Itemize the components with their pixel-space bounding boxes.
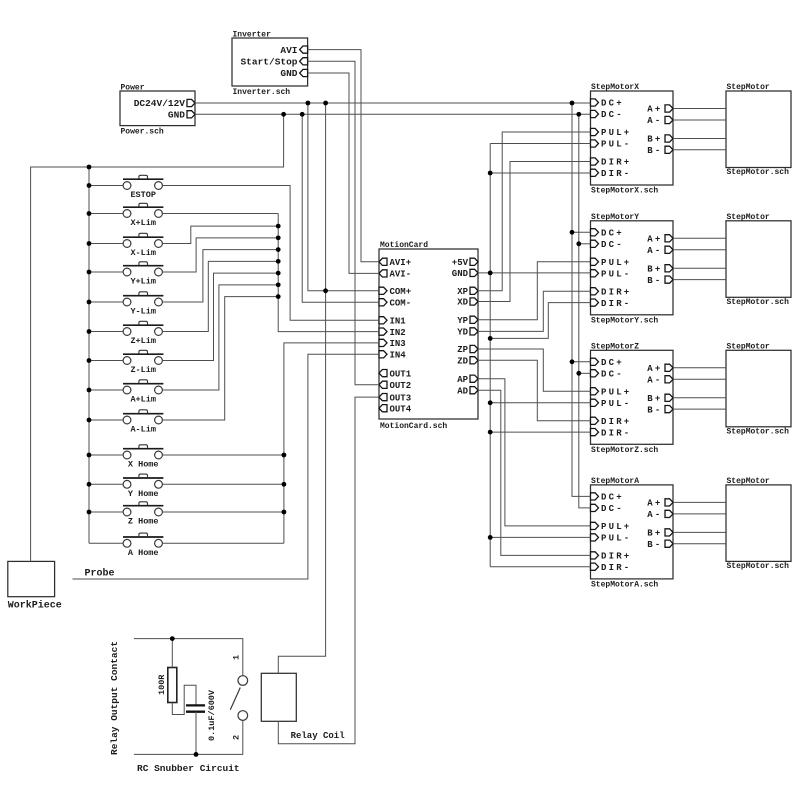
svg-text:IN2: IN2 (390, 328, 406, 338)
svg-text:YD: YD (457, 328, 468, 338)
svg-text:PUL-: PUL- (601, 534, 631, 544)
wire sig-gnd to StepMotorZ DIR- (490, 431, 590, 433)
pin AD of MotionCard (457, 386, 478, 396)
svg-text:YP: YP (457, 316, 468, 326)
svg-text:Inverter.sch: Inverter.sch (233, 88, 291, 97)
wire StepMotorZ B- to motor (673, 408, 726, 410)
svg-text:XP: XP (457, 287, 468, 297)
pin OUT3 of MotionCard (379, 393, 411, 403)
svg-text:StepMotor.sch: StepMotor.sch (727, 168, 790, 177)
svg-text:B-: B- (647, 405, 662, 415)
svg-text:B+: B+ (647, 529, 662, 539)
wire bus to Z+Lim left contact (89, 331, 123, 333)
wire signal ground bus (489, 144, 491, 567)
svg-text:Inverter: Inverter (233, 31, 272, 40)
svg-text:AD: AD (457, 386, 468, 396)
svg-text:A Home: A Home (128, 548, 159, 558)
pin A+ of StepMotorA (647, 499, 673, 509)
svg-text:IN4: IN4 (390, 351, 407, 361)
pin COM- of MotionCard (379, 299, 411, 309)
svg-text:WorkPiece: WorkPiece (8, 600, 62, 612)
wire Z+Lim to limit bus (162, 261, 278, 331)
wire AP to StepMotorA PUL+ (478, 379, 591, 526)
junction dots on home bus (282, 453, 287, 515)
wire relay contact bottom line (134, 720, 243, 754)
svg-text:MotionCard: MotionCard (380, 241, 428, 250)
pin DIR- of StepMotorZ (591, 428, 632, 438)
svg-text:B+: B+ (647, 394, 662, 404)
pin DIR- of StepMotorX (591, 169, 632, 179)
wire ZP to StepMotorZ PUL+ (478, 349, 591, 391)
pin YD of MotionCard (457, 328, 478, 338)
wire resistor top lead (171, 639, 173, 668)
wire DC- branch StepMotorZ (579, 372, 591, 374)
svg-text:StepMotorX: StepMotorX (591, 83, 639, 92)
svg-text:ZD: ZD (457, 357, 468, 367)
wire StepMotorA B- to motor (673, 543, 726, 545)
wire ESTOP to MotionCard IN1 (162, 186, 379, 321)
pin IN3 of MotionCard (379, 339, 406, 349)
pin OUT4 of MotionCard (379, 404, 412, 414)
svg-text:B-: B- (647, 540, 662, 550)
wire StepMotorZ A+ to motor (673, 367, 726, 369)
svg-text:StepMotor: StepMotor (727, 477, 770, 486)
pin DC24V/12V of Power (134, 98, 195, 109)
svg-text:StepMotor: StepMotor (727, 213, 770, 222)
wire X Home to home bus (162, 454, 284, 456)
svg-text:COM-: COM- (390, 299, 412, 309)
svg-text:Relay Output Contact: Relay Output Contact (109, 641, 120, 755)
wire StepMotorA A- to motor (673, 513, 726, 515)
pin B+ of StepMotorZ (647, 394, 673, 404)
wire bus to A-Lim left contact (89, 419, 123, 421)
pin PUL+ of StepMotorA (591, 522, 632, 532)
wire Y Home to home bus (162, 483, 284, 485)
wire Inverter GND to MotionCard AVI- (308, 73, 379, 273)
pin DIR+ of StepMotorZ (591, 417, 632, 427)
wire StepMotorY A+ to motor (673, 237, 726, 239)
pin DC+ of StepMotorZ (591, 358, 624, 368)
pin PUL+ of StepMotorY (591, 258, 632, 268)
pin A- of StepMotorA (647, 510, 673, 520)
pin DIR- of StepMotorY (591, 299, 632, 309)
svg-text:Y-Lim: Y-Lim (130, 307, 156, 317)
svg-text:RC Snubber Circuit: RC Snubber Circuit (137, 763, 240, 774)
switch A+Lim - push button (123, 380, 163, 394)
wire XP to StepMotorX PUL+ (478, 132, 591, 291)
wire DC24V rail from Power to StepMotorX DC+ (195, 102, 591, 104)
svg-text:PUL-: PUL- (601, 399, 631, 409)
svg-text:PUL+: PUL+ (601, 522, 631, 532)
svg-text:DIR-: DIR- (601, 169, 631, 179)
svg-text:B+: B+ (647, 135, 662, 145)
pin YP of MotionCard (457, 316, 478, 326)
svg-text:DC-: DC- (601, 370, 624, 380)
svg-text:A-: A- (647, 376, 662, 386)
pin DIR- of StepMotorA (591, 563, 632, 573)
wire switch common bus (88, 167, 90, 543)
pin PUL- of StepMotorY (591, 270, 632, 280)
wire GND drop to switch common rail (31, 114, 284, 561)
svg-text:GND: GND (452, 269, 469, 279)
pin A- of StepMotorX (647, 116, 673, 126)
hierarchical sheet StepMotorA (591, 485, 674, 579)
svg-text:DC+: DC+ (601, 99, 624, 109)
switch X-Lim - push button (123, 233, 163, 247)
pin A- of StepMotorY (647, 246, 673, 256)
pin AP of MotionCard (457, 375, 478, 385)
pin PUL- of StepMotorA (591, 534, 632, 544)
svg-text:DIR+: DIR+ (601, 417, 631, 427)
switch Z Home - push button (123, 502, 163, 516)
svg-text:StepMotorA: StepMotorA (591, 477, 639, 486)
junction dots on DC+ bus (570, 230, 575, 364)
switch Z-Lim - push button (123, 350, 163, 364)
wire Relay Coil - to MotionCard OUT3 (278, 397, 379, 744)
svg-text:A+: A+ (647, 105, 662, 115)
switch A-Lim - push button (123, 410, 163, 424)
wire A+Lim to limit bus (162, 285, 278, 390)
wire Z-Lim to limit bus (162, 273, 278, 360)
wire bus to ESTOP left contact (89, 185, 123, 187)
pin A+ of StepMotorY (647, 235, 673, 245)
svg-text:PUL+: PUL+ (601, 258, 631, 268)
wire XD to StepMotorX DIR+ (478, 162, 591, 302)
svg-text:DIR-: DIR- (601, 428, 631, 438)
svg-text:B-: B- (647, 276, 662, 286)
svg-text:Z+Lim: Z+Lim (130, 336, 156, 346)
hierarchical sheet StepMotorX (591, 91, 674, 185)
pin DC+ of StepMotorA (591, 493, 624, 503)
wire capacitor bottom lead (195, 712, 197, 755)
wire sig-gnd jog to StepMotorY DIR- (490, 303, 590, 339)
svg-text:Power.sch: Power.sch (121, 128, 164, 137)
switch Y+Lim - push button (123, 262, 163, 276)
wire home-switch bus to MotionCard IN3 (284, 343, 379, 543)
hierarchical sheet StepMotor (motor Z) (726, 350, 791, 427)
svg-text:StepMotor: StepMotor (727, 342, 770, 351)
pin OUT2 of MotionCard (379, 381, 411, 391)
svg-text:DIR+: DIR+ (601, 288, 631, 298)
svg-text:OUT3: OUT3 (390, 393, 412, 403)
pin PUL- of StepMotorZ (591, 399, 632, 409)
pin XP of MotionCard (457, 287, 478, 297)
wire A Home to home bus (162, 542, 284, 544)
wire X+Lim to limit bus (162, 213, 278, 215)
junction dot COM+ / relay feed (323, 288, 328, 293)
pin B+ of StepMotorX (647, 135, 673, 145)
wire sig-gnd to StepMotorA PUL- (490, 536, 590, 538)
sheet WorkPiece (8, 561, 55, 596)
svg-text:AVI-: AVI- (390, 270, 412, 280)
svg-text:B-: B- (647, 146, 662, 156)
wire MotionCard GND to StepMotorY PUL- (signal ground rail) (478, 272, 591, 274)
svg-text:OUT2: OUT2 (390, 381, 412, 391)
svg-text:StepMotorZ: StepMotorZ (591, 342, 639, 351)
svg-text:MotionCard.sch: MotionCard.sch (380, 422, 447, 431)
pin DC- of StepMotorY (591, 240, 624, 250)
svg-text:A-: A- (647, 246, 662, 256)
svg-text:DC-: DC- (601, 240, 624, 250)
capacitor C 0.1uF/600V (186, 705, 205, 711)
wire bus to Y+Lim left contact (89, 271, 123, 273)
svg-text:PUL-: PUL- (601, 140, 631, 150)
wire sig-gnd to StepMotorZ PUL- (490, 402, 590, 404)
hierarchical sheet MotionCard (379, 249, 478, 419)
wire GND/DC- bus to drivers (579, 114, 591, 508)
svg-text:X+Lim: X+Lim (130, 218, 156, 228)
relay contact blade (230, 688, 240, 710)
pin DC- of StepMotorX (591, 110, 624, 120)
svg-text:B+: B+ (647, 265, 662, 275)
pin B+ of StepMotorY (647, 265, 673, 275)
svg-text:StepMotorZ.sch: StepMotorZ.sch (591, 446, 658, 455)
wire bus to A Home left contact (89, 542, 123, 544)
pin B- of StepMotorX (647, 146, 673, 156)
wire bus to X-Lim left contact (89, 243, 123, 245)
pin +5V of MotionCard (452, 258, 478, 268)
hierarchical sheet StepMotorY (591, 221, 674, 315)
wire DC+ branch StepMotorZ (572, 361, 591, 363)
svg-text:Power: Power (121, 84, 145, 93)
wire Y+Lim to limit bus (162, 238, 278, 272)
pin DIR+ of StepMotorA (591, 552, 632, 562)
svg-text:XD: XD (457, 298, 468, 308)
switch Y Home - push button (123, 474, 163, 488)
svg-text:PUL+: PUL+ (601, 388, 631, 398)
pin B- of StepMotorY (647, 276, 673, 286)
hierarchical sheet Inverter (232, 38, 308, 86)
junction dots on DC24V rail (306, 101, 575, 106)
svg-text:GND: GND (280, 68, 297, 79)
svg-text:100R: 100R (157, 674, 167, 695)
wire X-Lim to limit bus (162, 226, 278, 243)
svg-text:0.1uF/600V: 0.1uF/600V (207, 689, 217, 741)
wire bus to Z-Lim left contact (89, 360, 123, 362)
svg-text:2: 2 (232, 735, 242, 740)
wire GND to MotionCard COM- (302, 114, 379, 302)
wire YD to StepMotorY DIR+ (478, 291, 591, 331)
svg-text:Y Home: Y Home (128, 489, 159, 499)
hierarchical sheet StepMotor (motor Y) (726, 221, 791, 297)
svg-text:DC24V/12V: DC24V/12V (134, 98, 186, 109)
wire Inverter Start/Stop to MotionCard OUT2 (308, 61, 379, 385)
svg-text:DC-: DC- (601, 504, 624, 514)
wire A-Lim to limit bus (162, 297, 278, 420)
svg-text:ZP: ZP (457, 345, 468, 355)
wire relay contact top line (134, 639, 243, 676)
wire bus to Y Home left contact (89, 483, 123, 485)
svg-text:OUT1: OUT1 (390, 369, 412, 379)
resistor R 100R (168, 668, 177, 703)
svg-text:IN3: IN3 (390, 339, 406, 349)
svg-text:Y+Lim: Y+Lim (130, 277, 156, 287)
wire Inverter AVI to MotionCard AVI+ (308, 50, 379, 262)
junction dots on limit bus (276, 224, 281, 299)
switch ESTOP - push button (123, 175, 163, 189)
hierarchical sheet Power (120, 91, 195, 126)
svg-text:AVI+: AVI+ (390, 258, 412, 268)
svg-text:DIR+: DIR+ (601, 552, 631, 562)
wire Y-Lim to limit bus (162, 250, 278, 302)
svg-text:StepMotor: StepMotor (727, 83, 770, 92)
svg-text:Relay Coil: Relay Coil (291, 731, 346, 741)
svg-text:DC+: DC+ (601, 493, 624, 503)
wire Z Home to home bus (162, 511, 284, 513)
svg-text:A-: A- (647, 510, 662, 520)
pin PUL+ of StepMotorX (591, 128, 632, 138)
pin B- of StepMotorA (647, 540, 673, 550)
svg-text:A+: A+ (647, 364, 662, 374)
wire bus to Z Home left contact (89, 511, 123, 513)
relay contact pole 1 (238, 676, 248, 686)
pin XD of MotionCard (457, 298, 478, 308)
wire StepMotorY B+ to motor (673, 267, 726, 269)
svg-text:IN1: IN1 (390, 317, 407, 327)
svg-text:DC+: DC+ (601, 358, 624, 368)
svg-text:DIR-: DIR- (601, 299, 631, 309)
pin GND of Power (168, 110, 195, 121)
wire GND rail from Power to StepMotorX DC- (195, 113, 591, 115)
junction dots on signal ground bus (488, 171, 493, 540)
pin A+ of StepMotorX (647, 105, 673, 115)
wire StepMotorZ B+ to motor (673, 397, 726, 399)
wire limit-switch bus to MotionCard IN2 (278, 214, 379, 332)
switch Z+Lim - push button (123, 321, 163, 335)
wire AD to StepMotorA DIR+ (478, 390, 591, 555)
pin AVI- of MotionCard (379, 270, 411, 280)
hierarchical sheet StepMotorZ (591, 350, 674, 444)
pin ZP of MotionCard (457, 345, 478, 355)
wire sig-gnd to StepMotorA DIR- (490, 566, 590, 568)
pin DC- of StepMotorZ (591, 370, 624, 380)
svg-text:DC-: DC- (601, 110, 624, 120)
pin PUL- of StepMotorX (591, 140, 632, 150)
svg-text:A+: A+ (647, 499, 662, 509)
svg-text:A+Lim: A+Lim (130, 395, 156, 405)
wire StepMotorY A- to motor (673, 249, 726, 251)
pin Start/Stop of Inverter (240, 57, 307, 68)
sheet Relay Coil (261, 673, 296, 721)
wire DC+ branch StepMotorY (572, 231, 591, 233)
pin B- of StepMotorZ (647, 405, 673, 415)
junction dot switch rail top (87, 165, 92, 170)
junction dot snubber top (170, 636, 175, 641)
svg-text:A-: A- (647, 116, 662, 126)
junction dots on DC- bus (576, 241, 581, 375)
wire bus to Y-Lim left contact (89, 301, 123, 303)
wire bus to A+Lim left contact (89, 389, 123, 391)
pin OUT1 of MotionCard (379, 369, 412, 379)
pin IN4 of MotionCard (379, 351, 406, 361)
svg-text:StepMotor.sch: StepMotor.sch (727, 427, 790, 436)
pin A- of StepMotorZ (647, 376, 673, 386)
svg-text:StepMotorX.sch: StepMotorX.sch (591, 187, 658, 196)
wire DC- branch StepMotorY (579, 243, 591, 245)
svg-text:PUL-: PUL- (601, 270, 631, 280)
hierarchical sheet StepMotor (motor X) (726, 91, 791, 168)
svg-text:OUT4: OUT4 (390, 404, 412, 414)
svg-text:Z-Lim: Z-Lim (130, 365, 156, 375)
svg-text:Probe: Probe (85, 568, 115, 580)
pin IN2 of MotionCard (379, 328, 406, 338)
wire StepMotorX B+ to motor (673, 138, 726, 140)
pin GND of Inverter (280, 68, 307, 79)
wire StepMotorA A+ to motor (673, 501, 726, 503)
switch Y-Lim - push button (123, 292, 163, 306)
svg-text:+5V: +5V (452, 258, 469, 268)
wire StepMotorX A- to motor (673, 119, 726, 121)
pin IN1 of MotionCard (379, 317, 406, 327)
svg-text:DIR-: DIR- (601, 563, 631, 573)
svg-text:X-Lim: X-Lim (130, 248, 156, 258)
pin AVI+ of MotionCard (379, 258, 411, 268)
svg-text:DIR+: DIR+ (601, 158, 631, 168)
wire StepMotorX A+ to motor (673, 108, 726, 110)
svg-text:A-Lim: A-Lim (130, 425, 156, 435)
wire StepMotorY B- to motor (673, 279, 726, 281)
pin AVI of Inverter (280, 45, 307, 56)
wire StepMotorX B- to motor (673, 149, 726, 151)
wire DC24V to MotionCard COM+ (308, 103, 379, 291)
wire DC24V drop to Relay Coil + (278, 103, 325, 673)
pin A+ of StepMotorZ (647, 364, 673, 374)
wire StepMotorA B+ to motor (673, 531, 726, 533)
svg-text:StepMotor.sch: StepMotor.sch (727, 298, 790, 307)
wire sig-gnd to StepMotorX DIR- (490, 172, 590, 174)
svg-text:Z Home: Z Home (128, 517, 159, 527)
svg-text:ESTOP: ESTOP (130, 190, 156, 200)
svg-text:GND: GND (168, 110, 185, 121)
pin PUL+ of StepMotorZ (591, 388, 632, 398)
wire sig-gnd to StepMotorX PUL- (490, 143, 590, 145)
switch X Home - push button (123, 445, 163, 459)
relay contact pole 2 (238, 711, 248, 721)
svg-text:DC+: DC+ (601, 229, 624, 239)
wire StepMotorZ A- to motor (673, 378, 726, 380)
hierarchical sheet StepMotor (motor A) (726, 485, 791, 562)
pin DIR+ of StepMotorX (591, 158, 632, 168)
svg-text:AP: AP (457, 375, 468, 385)
svg-text:1: 1 (232, 655, 242, 660)
pin B+ of StepMotorA (647, 529, 673, 539)
svg-text:StepMotorA.sch: StepMotorA.sch (591, 580, 658, 589)
wire YP to StepMotorY PUL+ (478, 262, 591, 320)
switch X+Lim - push button (123, 203, 163, 217)
pin DC+ of StepMotorX (591, 99, 624, 109)
svg-text:AVI: AVI (280, 45, 297, 56)
svg-text:PUL+: PUL+ (601, 128, 631, 138)
svg-text:StepMotorY: StepMotorY (591, 213, 639, 222)
wire ZD to StepMotorZ DIR+ (478, 360, 591, 421)
switch A Home - push button (123, 533, 163, 547)
svg-text:COM+: COM+ (390, 287, 412, 297)
svg-text:Start/Stop: Start/Stop (240, 57, 297, 68)
wire bus to X Home left contact (89, 454, 123, 456)
svg-text:X Home: X Home (128, 460, 159, 470)
wire bus to X+Lim left contact (89, 213, 123, 215)
svg-text:StepMotorY.sch: StepMotorY.sch (591, 316, 658, 325)
pin DIR+ of StepMotorY (591, 288, 632, 298)
pin GND of MotionCard (452, 269, 478, 279)
wire resistor bottom jog to capacitor (172, 685, 196, 714)
junction dots on GND rail (281, 112, 581, 117)
junction dot snubber bottom (194, 752, 199, 757)
pin DC+ of StepMotorY (591, 229, 624, 239)
wire +5V/DC+ bus to drivers (572, 103, 591, 496)
junction dots on switch common bus (87, 183, 92, 514)
svg-text:StepMotor.sch: StepMotor.sch (727, 562, 790, 571)
